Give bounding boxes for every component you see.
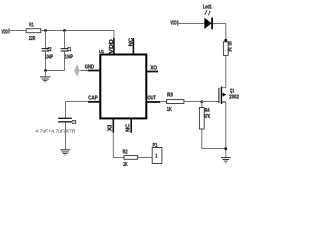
capacitor C3 (35, 118, 76, 149)
node junction at ground rail (44, 69, 47, 72)
wire VDD to LED (178, 23, 205, 25)
svg-text:OUT: OUT (148, 96, 157, 102)
wire VDD to R1 (9, 30, 26, 32)
resistor R3 (167, 93, 184, 113)
svg-text:R2: R2 (123, 149, 128, 155)
svg-text:VDD: VDD (109, 39, 115, 54)
ground (below C2/C1) (40, 71, 51, 82)
wire R1 to VDD pin of U1 (41, 31, 114, 39)
power port VDD (right) (170, 20, 177, 27)
pin NC (top) (129, 37, 135, 54)
pin VDD (top) (109, 38, 115, 54)
svg-text:C1: C1 (67, 47, 71, 53)
svg-text:C3: C3 (72, 120, 77, 126)
svg-text:104P: 104P (65, 55, 74, 61)
node junction at C2 (44, 29, 47, 32)
wire CAP pin to C3 (66, 102, 89, 118)
resistor R1 (26, 23, 41, 42)
wire C2 to C1 bottom rail (46, 70, 65, 72)
wire R4 to ground rail (202, 129, 226, 149)
svg-text:VDD: VDD (170, 21, 176, 27)
connector P1 (152, 143, 162, 163)
wire R5 to Q1 drain (221, 55, 225, 87)
pin XO (right) (147, 65, 158, 71)
resistor R5 (223, 42, 232, 56)
node junction gate/R4 (200, 100, 203, 103)
wire R3 to gate node (184, 101, 202, 103)
svg-text:1K: 1K (167, 107, 173, 113)
wire LED to R5 (213, 24, 226, 42)
svg-text:CAP: CAP (88, 95, 98, 101)
svg-text:2302: 2302 (229, 95, 239, 101)
svg-text:VDD: VDD (2, 30, 8, 36)
svg-text:R3: R3 (167, 93, 173, 99)
IC U1 (99, 49, 146, 118)
svg-text:XO: XO (150, 65, 157, 71)
ground arrow power port at GND pin (74, 64, 88, 77)
svg-text:1K: 1K (123, 162, 128, 168)
svg-text:47K: 47K (204, 114, 211, 120)
svg-text:NC: NC (129, 37, 135, 46)
node junction above R5 (224, 39, 227, 42)
resistor R2 (123, 149, 138, 168)
LED Led1 (203, 4, 212, 29)
svg-text:4.7uF+4.7uF/X7R: 4.7uF+4.7uF/X7R (35, 129, 76, 134)
resistor R4 (199, 102, 210, 130)
svg-text:NC: NC (125, 123, 131, 131)
svg-text:22R: 22R (29, 36, 36, 42)
wire node to gate (202, 101, 219, 103)
node junction source/R4 rail (224, 147, 227, 150)
svg-text:NC: NC (228, 47, 233, 53)
svg-text:Led1: Led1 (203, 4, 212, 10)
svg-text:1: 1 (155, 154, 157, 160)
svg-text:GND: GND (85, 64, 95, 70)
svg-text:R1: R1 (29, 23, 33, 29)
svg-text:U1: U1 (99, 49, 104, 54)
wire R2 to P1 (138, 157, 153, 159)
svg-text:104P: 104P (45, 55, 54, 61)
pin XI (bottom) (107, 119, 113, 133)
capacitor C1 (61, 31, 74, 71)
wire Q1 source to ground (225, 102, 227, 157)
svg-text:XI: XI (107, 124, 113, 131)
svg-text:Q1: Q1 (230, 88, 234, 94)
node junction at C1 (63, 29, 66, 32)
wire OUT pin to R3 (160, 101, 166, 103)
ground (below Q1) (221, 158, 231, 163)
transistor Q1 (219, 87, 239, 104)
pin NC (bottom) (125, 119, 131, 133)
pin GND (left) (85, 64, 100, 70)
pin CAP (left) (88, 95, 100, 102)
pin OUT (right) (147, 96, 161, 102)
power port VDD (left) (2, 28, 10, 35)
ground (below C3) (60, 150, 70, 155)
svg-text:C2: C2 (47, 47, 51, 53)
wire XI pin to R2 (113, 133, 124, 158)
capacitor C2 (42, 31, 54, 71)
svg-text:P1: P1 (153, 143, 158, 149)
